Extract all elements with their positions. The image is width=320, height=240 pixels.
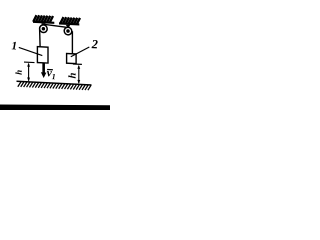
pulley P2 axle xyxy=(66,29,70,33)
pulley P2 hook xyxy=(66,25,70,30)
label v1 overbar xyxy=(47,69,53,71)
ceiling mount right bar xyxy=(59,22,79,25)
mass 1 block xyxy=(37,47,48,63)
label v1 letter xyxy=(47,71,52,77)
wire horizontal string between pulleys xyxy=(45,24,66,27)
ceiling mount left hatching xyxy=(33,15,53,23)
black band at bottom edge (scan artifact) xyxy=(0,105,110,111)
leader line label 2 xyxy=(71,46,90,58)
dimension left arrow line xyxy=(28,64,30,81)
ground line xyxy=(17,81,92,85)
ceiling mount right hatching xyxy=(60,17,80,25)
label h right (rotated) xyxy=(68,73,75,78)
dimension left arrowhead down xyxy=(27,77,30,81)
dimension left arrowhead up xyxy=(27,63,30,67)
dimension right extension line xyxy=(73,63,82,65)
dimension left extension line xyxy=(24,61,35,64)
velocity arrow v1 head xyxy=(41,72,47,78)
dimension right arrow line xyxy=(78,66,80,83)
leader line label 1 xyxy=(19,47,43,55)
pulley P2 wheel xyxy=(64,27,72,35)
velocity arrow v1 shaft xyxy=(42,63,45,73)
label v1 subscript xyxy=(52,74,55,79)
mass 2 block xyxy=(67,53,77,63)
wire right string to mass 2 xyxy=(71,31,73,54)
ceiling mount left bar xyxy=(33,21,54,24)
label 1 xyxy=(12,42,16,50)
ground hatching xyxy=(18,82,91,91)
pulley P1 axle xyxy=(42,27,46,31)
label h left (rotated) xyxy=(15,70,21,75)
dimension right arrowhead down xyxy=(77,80,80,84)
label 2 xyxy=(92,40,98,49)
pulley P1 hook xyxy=(41,23,45,27)
dimension right arrowhead up xyxy=(77,65,80,69)
pulley P1 wheel xyxy=(40,25,48,33)
wire left string to mass 1 xyxy=(39,29,42,47)
